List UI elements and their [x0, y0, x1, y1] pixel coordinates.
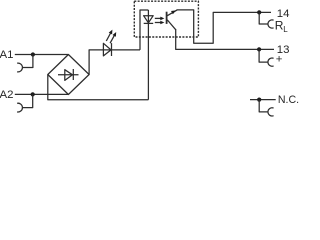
wire N.C. stub — [250, 99, 276, 101]
terminal N.C. label — [278, 94, 299, 106]
terminal 14 plug contact half-circle — [268, 20, 274, 28]
A2 plug contact half-circle — [17, 103, 22, 112]
wire emitter to box-bottom dip — [177, 10, 271, 43]
opto LED vertical axis wire — [147, 10, 149, 100]
wire collector down and right to terminal 13 — [176, 29, 274, 49]
terminal 14 label — [277, 8, 290, 20]
terminal 13 plug contact half-circle — [268, 58, 274, 66]
LED D1 cathode bar — [111, 43, 113, 56]
svg-text:+: + — [276, 53, 283, 65]
wire A1 to bridge top vertex — [15, 54, 69, 56]
LED D1 emission arrow 1 — [106, 33, 110, 41]
terminal 13 label — [277, 44, 290, 56]
bridge diode cathode bar — [72, 69, 74, 80]
wire LED riser into module box — [140, 10, 148, 50]
svg-text:A1: A1 — [0, 49, 13, 61]
opto LED triangle — [144, 16, 154, 23]
wire N.C. contact drop — [259, 100, 268, 112]
plus polarity label — [276, 53, 283, 65]
A1 plug contact half-circle — [17, 63, 22, 72]
LED D1 emission arrow 2 — [110, 35, 114, 43]
opto LED cathode bar — [144, 22, 154, 24]
svg-text:L: L — [283, 25, 288, 34]
wire terminal 14 contact drop — [259, 12, 268, 24]
opto coupling arrow 1 — [155, 17, 161, 19]
wire A2 contact drop — [22, 94, 32, 107]
wire A1 contact drop — [22, 55, 33, 68]
bridge diode triangle — [65, 70, 73, 81]
opto coupling arrow 2 — [155, 22, 161, 24]
bridge diode axis wire — [58, 74, 79, 76]
node terminal 13 junction dot — [257, 47, 261, 51]
svg-text:N.C.: N.C. — [278, 94, 299, 106]
wire bridge DC plus (right vertex up to LED) — [89, 50, 140, 75]
wire terminal 13 contact drop — [259, 49, 268, 62]
N.C. plug contact half-circle — [268, 108, 274, 116]
phototransistor Q1 base bar — [166, 12, 168, 24]
phototransistor Q1 collector diagonal — [167, 20, 175, 30]
load resistor RL label — [275, 18, 288, 33]
bridge rectifier B1 diamond — [48, 55, 89, 95]
terminal A2 label — [0, 89, 13, 101]
LED D1 indicator triangle — [103, 43, 111, 56]
wire A2 to bridge bottom vertex — [15, 93, 69, 95]
node A1 junction dot — [31, 52, 35, 56]
phototransistor Q1 emitter diagonal — [167, 10, 177, 16]
svg-text:A2: A2 — [0, 89, 13, 101]
wire bridge DC minus return (left vertex down, bottom run to opto LED cathode) — [48, 75, 149, 100]
optocoupler U1 dashed enclosure — [134, 1, 198, 37]
node terminal 14 junction dot — [257, 10, 261, 14]
terminal A1 label — [0, 49, 13, 61]
node A2 junction dot — [31, 92, 35, 96]
node N.C. junction dot — [257, 98, 261, 102]
phototransistor Q1 emitter arrowhead — [171, 10, 176, 14]
